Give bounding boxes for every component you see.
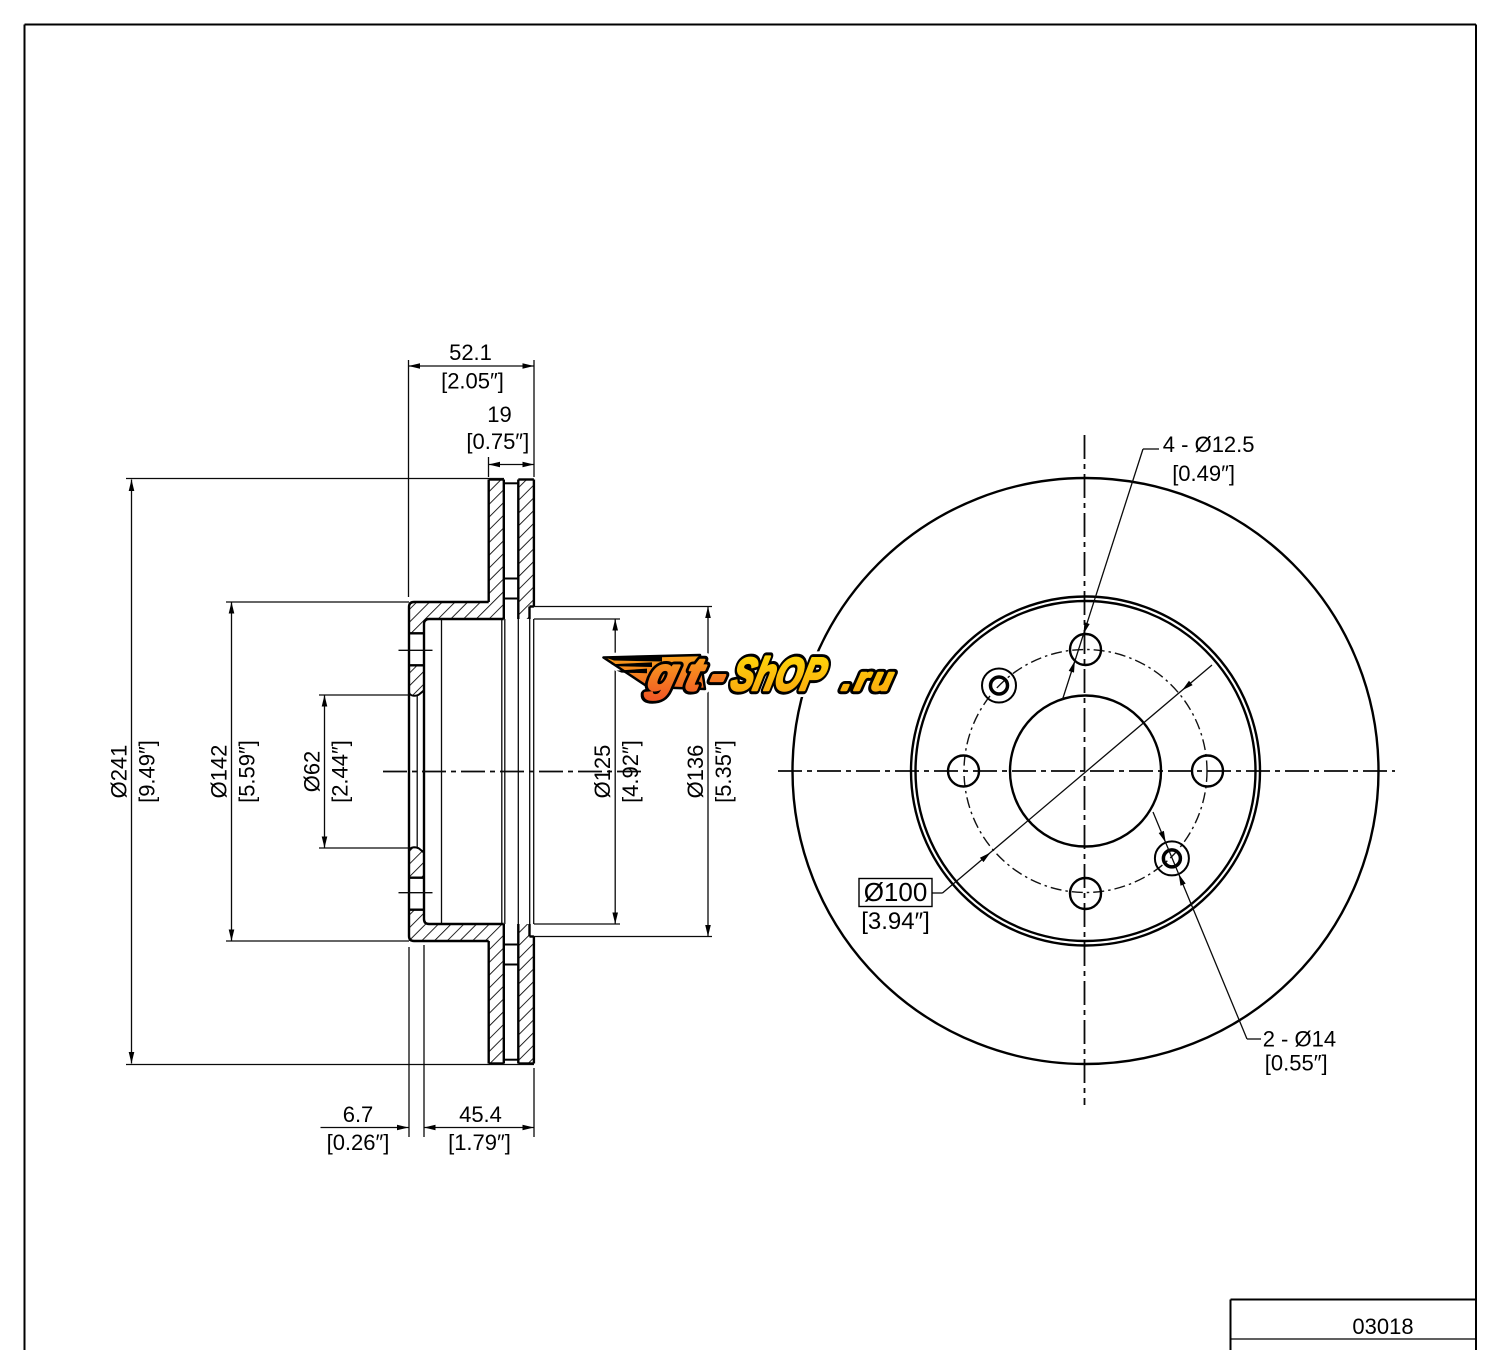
bolt hole bottom [1070,878,1101,909]
outer circle [793,478,1379,1064]
dimension 45.4 [1.79"] line [424,1127,534,1129]
leader 4-Ø12.5 [1063,449,1144,700]
set screw hole upper-left D14 [982,669,1016,703]
bolt hole tick lines [399,649,433,651]
svg-text:[5.35″]: [5.35″] [711,740,736,803]
svg-text:4 - Ø12.5: 4 - Ø12.5 [1163,432,1255,457]
svg-text:[0.55″]: [0.55″] [1265,1051,1328,1076]
dimension D142 line [231,602,233,941]
svg-text:[1.79″]: [1.79″] [448,1130,511,1155]
bolt hole right [1192,756,1223,787]
horizontal centerline [778,770,1395,772]
bottom right plate [518,1062,534,1064]
svg-text:gt-: gt- [643,649,742,700]
speed lines [605,656,662,662]
svg-text:2 - Ø14: 2 - Ø14 [1263,1027,1336,1052]
svg-text:[9.49″]: [9.49″] [135,740,160,803]
svg-text:[4.92″]: [4.92″] [618,740,643,803]
flange top [409,602,489,941]
svg-text:.ru: .ru [839,661,901,696]
svg-text:[0.75″]: [0.75″] [466,429,529,454]
bore edge lines [409,691,424,696]
top right plate [518,478,534,480]
svg-text:52.1: 52.1 [449,340,492,365]
thin silhouette lines in bore region [416,696,418,848]
arrowheads [409,363,421,369]
hat inner silhouette [441,619,443,924]
svg-text:[3.94″]: [3.94″] [861,908,930,935]
vent slot lines bottom [504,1059,519,1061]
bolt hole top [1070,634,1101,665]
vertical centerline [1084,435,1086,1105]
svg-text:[2.05″]: [2.05″] [441,369,504,394]
dimension 52.1 [2.05"] line [409,365,535,367]
hatched hub flange and plates [409,480,504,634]
dimension D62 line [324,695,326,848]
svg-text:Ø125: Ø125 [590,745,615,799]
part outline: top left plate [489,478,504,480]
border frame [25,24,1477,26]
dimension 6.7 [0.26"] line [321,1127,409,1129]
center bore [1010,696,1161,847]
svg-text:[0.26″]: [0.26″] [327,1130,390,1155]
dimension 19 [0.75"] line [489,464,535,466]
logo swoosh wedge [604,655,706,689]
title block [1231,1299,1477,1301]
vent slot lines top [504,482,519,484]
svg-text:03018: 03018 [1352,1314,1413,1339]
bolt circle [964,650,1207,893]
svg-text:Ø100: Ø100 [864,877,928,907]
bolt hole left [948,756,979,787]
leader 2-Ø14 [1153,812,1247,1039]
svg-text:[0.49″]: [0.49″] [1172,461,1235,486]
svg-text:ShOP: ShOP [726,649,832,700]
svg-text:19: 19 [487,402,511,427]
dimension D241 line [131,480,133,1064]
dimension D136 line [707,607,709,937]
center line [383,771,641,773]
bottom left plate [489,1062,504,1064]
svg-text:Ø241: Ø241 [107,745,132,799]
vent channel silhouettes [501,619,503,924]
dimension D125 line [614,619,616,924]
svg-text:Ø62: Ø62 [300,751,325,793]
svg-text:45.4: 45.4 [459,1102,502,1127]
svg-text:[2.44″]: [2.44″] [328,740,353,803]
bolt hole gap edges in hub wall [409,632,424,634]
svg-text:Ø142: Ø142 [207,745,232,799]
hat edge double circle [911,597,1260,946]
svg-text:Ø136: Ø136 [683,745,708,799]
set screw hole lower-right D14 [1155,841,1189,875]
svg-text:6.7: 6.7 [343,1102,374,1127]
svg-text:[5.59″]: [5.59″] [235,740,260,803]
extension lines [126,478,504,480]
Ø100 diagonal dimension [943,665,1213,893]
